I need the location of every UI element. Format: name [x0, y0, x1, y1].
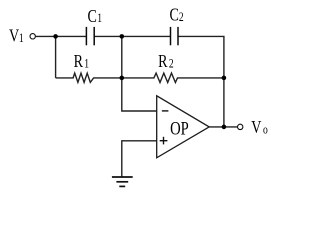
svg-text:2: 2: [169, 57, 174, 70]
svg-text:C: C: [88, 7, 97, 26]
svg-text:1: 1: [84, 57, 89, 70]
svg-text:o: o: [263, 123, 268, 136]
svg-text:OP: OP: [170, 118, 189, 139]
svg-text:R: R: [74, 53, 84, 72]
svg-text:1: 1: [97, 12, 102, 25]
svg-text:V: V: [251, 119, 261, 138]
svg-text:R: R: [158, 53, 168, 72]
svg-text:C: C: [170, 6, 179, 25]
svg-text:2: 2: [179, 11, 184, 24]
svg-text:1: 1: [19, 32, 24, 45]
svg-text:V: V: [9, 27, 19, 46]
